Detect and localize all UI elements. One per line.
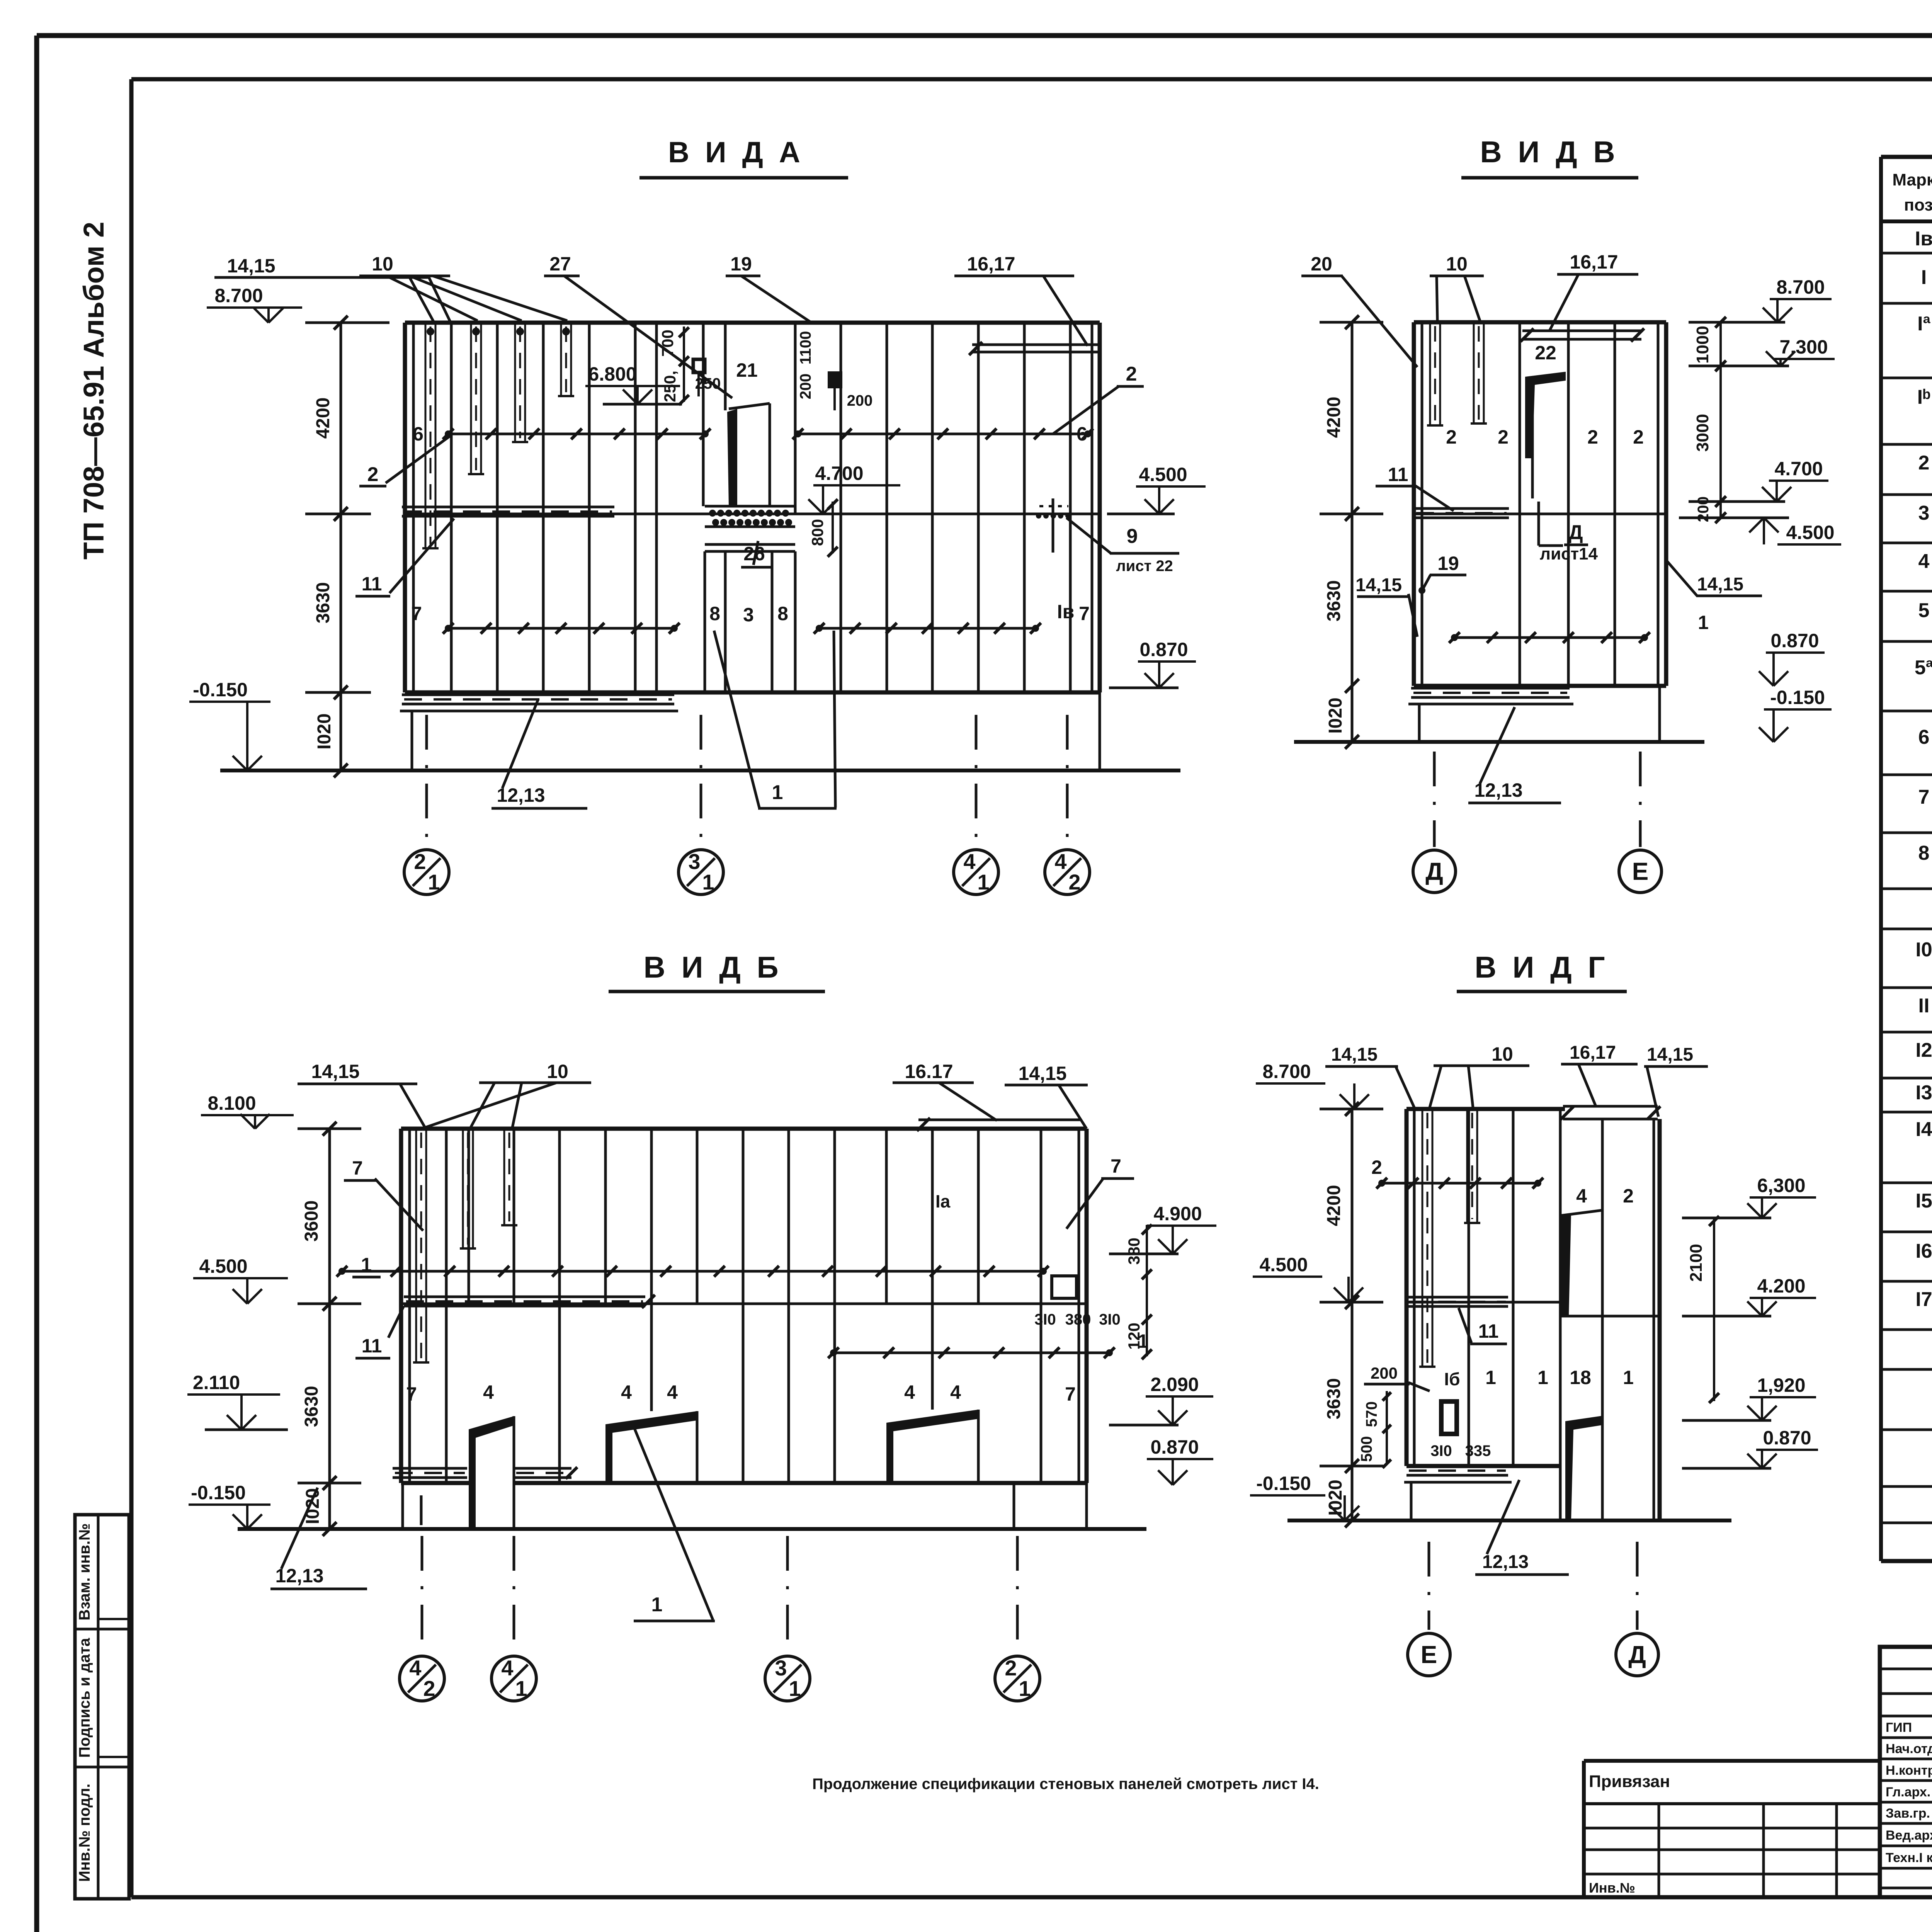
vid A cap band 16-17 bbox=[969, 342, 1100, 355]
svg-text:Привязан: Привязан bbox=[1589, 1772, 1670, 1791]
vid V strip b bbox=[1471, 322, 1487, 423]
svg-text:1100: 1100 bbox=[797, 331, 814, 365]
vid G right dims bbox=[1682, 1175, 1818, 1468]
svg-text:4: 4 bbox=[1054, 849, 1066, 874]
svg-text:I: I bbox=[1921, 266, 1927, 289]
svg-text:9: 9 bbox=[1127, 525, 1138, 548]
svg-text:3: 3 bbox=[1918, 502, 1930, 524]
svg-text:-0.150: -0.150 bbox=[1256, 1473, 1311, 1494]
vid V labels bbox=[1301, 251, 1762, 637]
vid A strip 10 d bbox=[558, 323, 574, 396]
vid A level 0.870 right bbox=[1109, 639, 1196, 688]
vid V ground line bbox=[1294, 740, 1704, 744]
vid A plinth band upper-left bbox=[402, 507, 614, 516]
vid G level 4.500 bbox=[1253, 1254, 1363, 1302]
title block bbox=[1880, 1647, 1932, 1898]
vid V cap band 16-17 bbox=[1520, 328, 1644, 342]
svg-text:Iа: Iа bbox=[935, 1191, 951, 1211]
svg-text:120: 120 bbox=[1125, 1323, 1143, 1350]
svg-text:21: 21 bbox=[736, 359, 758, 381]
svg-text:4.500: 4.500 bbox=[1139, 464, 1187, 485]
svg-text:2: 2 bbox=[1371, 1156, 1382, 1178]
svg-text:1: 1 bbox=[789, 1676, 801, 1701]
vid V right dims bbox=[1679, 276, 1841, 742]
vid B axis marks bbox=[400, 1536, 1040, 1701]
svg-text:16,17: 16,17 bbox=[1570, 1043, 1616, 1063]
svg-text:Е: Е bbox=[1632, 857, 1649, 885]
svg-text:В И Д А: В И Д А bbox=[668, 136, 804, 169]
svg-text:3: 3 bbox=[688, 849, 700, 874]
svg-text:0.870: 0.870 bbox=[1770, 630, 1819, 651]
svg-text:I3: I3 bbox=[1915, 1082, 1932, 1104]
svg-text:250: 250 bbox=[695, 375, 721, 392]
vid A anchor dots detail 26 bbox=[705, 506, 795, 551]
svg-text:1: 1 bbox=[361, 1254, 372, 1276]
vid A title bbox=[639, 136, 848, 178]
svg-text:лист 22: лист 22 bbox=[1116, 558, 1173, 575]
vid V title bbox=[1461, 135, 1638, 178]
vid B panel joints and openings bbox=[401, 1129, 1087, 1529]
svg-text:10: 10 bbox=[1492, 1043, 1513, 1065]
vid A level 4.500 right bbox=[1107, 464, 1206, 514]
vid B title bbox=[609, 950, 825, 992]
vid V mid joint line bbox=[1414, 513, 1666, 515]
svg-text:4: 4 bbox=[501, 1656, 513, 1680]
vid V left dim chain bbox=[1320, 315, 1383, 749]
vid V tick row bbox=[1449, 632, 1650, 643]
vid G level 8.700 bbox=[1256, 1061, 1369, 1109]
vid G proem rect bbox=[1441, 1401, 1457, 1434]
svg-text:7: 7 bbox=[352, 1157, 363, 1179]
svg-text:Iª: Iª bbox=[1917, 313, 1930, 335]
svg-text:I020: I020 bbox=[1325, 697, 1346, 733]
svg-text:7: 7 bbox=[1065, 1383, 1076, 1405]
vid G level -0.150 bbox=[1250, 1473, 1359, 1520]
svg-text:В И Д В: В И Д В bbox=[1480, 135, 1619, 169]
svg-text:Марка,: Марка, bbox=[1892, 170, 1932, 189]
svg-text:700: 700 bbox=[658, 330, 677, 357]
svg-text:8.700: 8.700 bbox=[214, 285, 263, 306]
svg-text:19: 19 bbox=[730, 253, 752, 275]
svg-text:14,15: 14,15 bbox=[1355, 575, 1402, 595]
vid A tick row lower bbox=[443, 623, 1041, 634]
svg-text:1: 1 bbox=[515, 1676, 527, 1701]
svg-text:12,13: 12,13 bbox=[1482, 1552, 1529, 1572]
vid A level 8.700 bbox=[207, 285, 302, 323]
svg-text:Iв: Iв bbox=[1915, 228, 1932, 250]
svg-text:Iб: Iб bbox=[1444, 1369, 1460, 1389]
svg-text:4.700: 4.700 bbox=[1774, 458, 1823, 480]
vid G cap band 16-17 bbox=[1561, 1106, 1660, 1119]
vid G below-wall edge bbox=[1410, 1482, 1413, 1520]
svg-text:8: 8 bbox=[777, 603, 788, 624]
svg-text:200: 200 bbox=[797, 374, 814, 400]
vid A level 6.800 inner bbox=[585, 363, 682, 404]
svg-text:3: 3 bbox=[743, 604, 754, 626]
svg-text:1: 1 bbox=[772, 781, 783, 804]
vid A below-wall edges bbox=[412, 692, 1100, 770]
svg-text:7: 7 bbox=[1079, 603, 1090, 624]
svg-text:6: 6 bbox=[1918, 726, 1930, 748]
svg-text:0.870: 0.870 bbox=[1763, 1427, 1811, 1449]
svg-text:200: 200 bbox=[847, 392, 873, 409]
svg-text:I7: I7 bbox=[1915, 1288, 1932, 1311]
svg-text:2: 2 bbox=[1587, 426, 1598, 448]
vid A plinth band lower bbox=[400, 695, 678, 711]
vid B strip b bbox=[460, 1129, 476, 1248]
vid G strip b bbox=[1464, 1109, 1480, 1223]
svg-text:20: 20 bbox=[1311, 253, 1332, 275]
svg-text:Зав.гр.: Зав.гр. bbox=[1886, 1806, 1930, 1821]
svg-text:3630: 3630 bbox=[1324, 580, 1344, 622]
svg-text:11: 11 bbox=[1478, 1320, 1499, 1342]
svg-text:8.700: 8.700 bbox=[1776, 276, 1825, 298]
svg-text:-0.150: -0.150 bbox=[193, 679, 248, 701]
svg-text:Н.контр.: Н.контр. bbox=[1886, 1763, 1932, 1778]
vid G left dim chain bbox=[1320, 1102, 1383, 1527]
svg-text:14,15: 14,15 bbox=[227, 255, 275, 277]
svg-text:4.900: 4.900 bbox=[1153, 1203, 1202, 1225]
vid B level 8.100 bbox=[201, 1092, 294, 1129]
svg-text:4: 4 bbox=[1918, 550, 1930, 573]
vid A tick row upper bbox=[443, 429, 1093, 439]
svg-text:22: 22 bbox=[1535, 342, 1556, 364]
vid A detail 9 dots bbox=[1036, 498, 1071, 553]
svg-text:4: 4 bbox=[409, 1656, 421, 1680]
svg-text:2: 2 bbox=[1126, 363, 1137, 385]
svg-text:2100: 2100 bbox=[1687, 1244, 1706, 1282]
svg-text:3630: 3630 bbox=[301, 1386, 322, 1427]
svg-text:4.500: 4.500 bbox=[1259, 1254, 1308, 1276]
svg-text:Гл.арх.: Гл.арх. bbox=[1886, 1785, 1930, 1799]
svg-text:4: 4 bbox=[963, 849, 975, 874]
vid A wall outline bbox=[405, 323, 1100, 692]
vid A axis marks bbox=[404, 715, 1090, 895]
svg-text:200: 200 bbox=[1371, 1364, 1398, 1382]
svg-text:I2: I2 bbox=[1915, 1039, 1932, 1061]
svg-text:2: 2 bbox=[1498, 426, 1509, 448]
svg-text:3I0: 3I0 bbox=[1034, 1311, 1056, 1328]
svg-text:4: 4 bbox=[483, 1381, 494, 1403]
svg-text:4: 4 bbox=[950, 1381, 961, 1403]
vid V window 22 bbox=[1525, 372, 1566, 498]
vid B wall outline bbox=[401, 1129, 1087, 1483]
svg-text:10: 10 bbox=[547, 1061, 568, 1082]
privyazan block bbox=[1584, 1761, 1880, 1899]
svg-text:14,15: 14,15 bbox=[1018, 1063, 1066, 1084]
svg-text:250,: 250, bbox=[661, 371, 679, 402]
vid G plinth band bottom bbox=[1404, 1466, 1512, 1482]
svg-text:16,17: 16,17 bbox=[1570, 251, 1618, 273]
vid B level 4.500 bbox=[193, 1255, 288, 1304]
vid B ground line bbox=[238, 1527, 1146, 1531]
vid B tick row lower bbox=[828, 1347, 1115, 1358]
svg-text:7: 7 bbox=[1111, 1155, 1121, 1177]
svg-text:6,300: 6,300 bbox=[1757, 1175, 1805, 1196]
svg-text:I020: I020 bbox=[303, 1488, 323, 1524]
svg-text:Iᵇ: Iᵇ bbox=[1917, 386, 1931, 408]
spec table grid bbox=[1881, 157, 1932, 1561]
svg-text:2.090: 2.090 bbox=[1150, 1374, 1199, 1395]
vid V wall outline bbox=[1414, 322, 1666, 686]
svg-text:8: 8 bbox=[709, 603, 720, 624]
svg-text:4: 4 bbox=[621, 1381, 632, 1403]
svg-text:1: 1 bbox=[1019, 1676, 1031, 1701]
vid G title bbox=[1457, 950, 1627, 992]
svg-text:10: 10 bbox=[1446, 253, 1468, 275]
svg-text:335: 335 bbox=[1465, 1442, 1491, 1459]
vid V plinth band mid bbox=[1414, 509, 1509, 518]
svg-text:I0: I0 bbox=[1915, 939, 1932, 961]
svg-text:4.500: 4.500 bbox=[1786, 522, 1834, 543]
svg-text:1000: 1000 bbox=[1693, 326, 1712, 364]
svg-text:Продолжение спецификации стено: Продолжение спецификации стеновых панеле… bbox=[812, 1776, 1319, 1793]
svg-text:-0.150: -0.150 bbox=[191, 1482, 246, 1503]
vid B plinth band bottom bbox=[393, 1467, 577, 1479]
svg-text:16,17: 16,17 bbox=[967, 253, 1015, 275]
svg-text:-0.150: -0.150 bbox=[1770, 687, 1825, 708]
svg-text:0.870: 0.870 bbox=[1139, 639, 1188, 660]
svg-text:6: 6 bbox=[413, 423, 423, 445]
svg-text:Взам. инв.№: Взам. инв.№ bbox=[76, 1523, 93, 1620]
svg-text:3630: 3630 bbox=[1324, 1378, 1344, 1420]
svg-text:В И Д Г: В И Д Г bbox=[1475, 950, 1609, 984]
svg-text:7: 7 bbox=[406, 1383, 417, 1405]
svg-text:4200: 4200 bbox=[313, 398, 333, 439]
vid A panel joints bbox=[451, 323, 1070, 692]
svg-text:4200: 4200 bbox=[1324, 1185, 1344, 1226]
svg-text:3I0: 3I0 bbox=[1430, 1442, 1452, 1459]
vid B plinth band mid bbox=[404, 1295, 655, 1308]
svg-text:ГИП: ГИП bbox=[1886, 1720, 1912, 1735]
vid A strip 10 c bbox=[512, 323, 528, 442]
svg-text:0.870: 0.870 bbox=[1150, 1436, 1199, 1458]
vid A labels and leaders bbox=[214, 253, 1179, 808]
vid B labels and leaders bbox=[270, 1061, 1148, 1621]
svg-text:380: 380 bbox=[1125, 1238, 1143, 1265]
vid B tick row upper bbox=[337, 1266, 1049, 1277]
continuation note bbox=[812, 1776, 1319, 1793]
svg-text:4.700: 4.700 bbox=[815, 463, 863, 484]
svg-text:1: 1 bbox=[702, 870, 714, 894]
spec table rows lower bbox=[1915, 939, 1932, 1551]
svg-text:I5: I5 bbox=[1915, 1190, 1932, 1212]
svg-text:800: 800 bbox=[808, 519, 827, 546]
vid B mid joint line bbox=[401, 1303, 1087, 1305]
svg-text:1: 1 bbox=[428, 870, 440, 894]
svg-text:7.300: 7.300 bbox=[1779, 336, 1828, 358]
svg-text:В И Д Б: В И Д Б bbox=[643, 950, 782, 984]
vid B right dims bbox=[1034, 1203, 1216, 1485]
svg-text:7: 7 bbox=[1918, 786, 1930, 808]
svg-text:4: 4 bbox=[1576, 1185, 1587, 1207]
svg-text:8.700: 8.700 bbox=[1262, 1061, 1311, 1082]
svg-text:14,15: 14,15 bbox=[311, 1061, 359, 1082]
vid G tick row bbox=[1376, 1178, 1543, 1189]
svg-text:1: 1 bbox=[1485, 1367, 1496, 1388]
vid G axis marks bbox=[1408, 1542, 1658, 1676]
svg-text:8: 8 bbox=[1918, 842, 1930, 864]
svg-text:11: 11 bbox=[362, 573, 382, 595]
svg-text:Д: Д bbox=[1425, 857, 1443, 885]
svg-text:570: 570 bbox=[1363, 1401, 1380, 1427]
svg-text:4: 4 bbox=[904, 1381, 915, 1403]
svg-text:6.800: 6.800 bbox=[588, 363, 636, 385]
svg-text:2: 2 bbox=[423, 1676, 435, 1701]
svg-text:3000: 3000 bbox=[1693, 414, 1712, 452]
vid G black step panel 18 bbox=[1565, 1416, 1602, 1520]
svg-text:лист14: лист14 bbox=[1540, 544, 1598, 563]
vid G strip a bbox=[1419, 1109, 1435, 1367]
svg-text:1: 1 bbox=[1698, 612, 1709, 633]
svg-text:1: 1 bbox=[651, 1594, 663, 1616]
svg-text:Инв.№ подл.: Инв.№ подл. bbox=[76, 1784, 93, 1882]
vid A window 21 opening bbox=[727, 403, 770, 507]
vid B below-plinth lines bbox=[420, 1495, 423, 1525]
svg-text:3630: 3630 bbox=[313, 582, 333, 624]
svg-text:5: 5 bbox=[1918, 599, 1930, 622]
svg-text:380: 380 bbox=[1065, 1311, 1091, 1328]
vid A strip 10 b bbox=[468, 323, 484, 474]
svg-text:10: 10 bbox=[372, 253, 393, 275]
svg-text:Iв: Iв bbox=[1057, 601, 1075, 622]
svg-text:Нач.отд.: Нач.отд. bbox=[1886, 1742, 1932, 1756]
vid V plinth band bottom bbox=[1408, 688, 1573, 704]
svg-text:3: 3 bbox=[775, 1656, 787, 1680]
vid G panel joints bbox=[1406, 1109, 1660, 1520]
svg-text:2: 2 bbox=[1005, 1656, 1017, 1680]
vid A level 4.700 inner bbox=[808, 463, 900, 514]
vid V axis marks bbox=[1413, 752, 1662, 893]
svg-text:6: 6 bbox=[1077, 423, 1087, 445]
vid A mid joint line bbox=[405, 513, 1100, 515]
vid B strip a bbox=[413, 1129, 429, 1362]
vid V label 12-13 bbox=[1468, 707, 1561, 803]
vid B proem rect bbox=[1052, 1276, 1077, 1298]
vid G ground line bbox=[1287, 1519, 1731, 1522]
spec table rows upper bbox=[1915, 228, 1932, 890]
vid B left dim chain bbox=[298, 1122, 361, 1536]
svg-text:I020: I020 bbox=[314, 713, 335, 749]
svg-text:4200: 4200 bbox=[1324, 397, 1344, 438]
svg-text:14,15: 14,15 bbox=[1647, 1044, 1693, 1065]
vid A left dim chain bbox=[305, 316, 389, 777]
vid G labels bbox=[1325, 1043, 1708, 1575]
svg-text:I4: I4 bbox=[1915, 1118, 1932, 1141]
svg-text:2: 2 bbox=[1633, 426, 1644, 448]
svg-text:1: 1 bbox=[1623, 1367, 1634, 1388]
svg-text:I6: I6 bbox=[1915, 1240, 1932, 1262]
svg-text:3600: 3600 bbox=[301, 1201, 322, 1242]
vid G wall outline bbox=[1406, 1109, 1660, 1520]
svg-text:поз.: поз. bbox=[1904, 196, 1932, 214]
svg-text:11: 11 bbox=[362, 1335, 382, 1357]
svg-text:Д: Д bbox=[1568, 521, 1583, 544]
svg-text:500: 500 bbox=[1358, 1436, 1375, 1462]
svg-text:16.17: 16.17 bbox=[905, 1061, 953, 1082]
svg-text:II: II bbox=[1918, 995, 1930, 1017]
svg-text:5ª: 5ª bbox=[1915, 656, 1932, 679]
svg-text:27: 27 bbox=[549, 253, 571, 275]
vid A small opening dims bbox=[658, 327, 872, 557]
svg-text:2.110: 2.110 bbox=[193, 1372, 240, 1393]
svg-text:4.500: 4.500 bbox=[199, 1255, 247, 1277]
svg-text:2: 2 bbox=[367, 463, 379, 486]
svg-text:3I0: 3I0 bbox=[1099, 1311, 1121, 1328]
svg-text:4.200: 4.200 bbox=[1757, 1275, 1805, 1297]
vid G black wedge panel 4 bbox=[1560, 1210, 1602, 1316]
vid G plinth band mid bbox=[1406, 1297, 1508, 1306]
svg-text:Подпись и дата: Подпись и дата bbox=[76, 1638, 93, 1758]
vid B strip c bbox=[501, 1129, 517, 1225]
vid V strip a bbox=[1427, 322, 1443, 425]
svg-text:2: 2 bbox=[1918, 452, 1930, 474]
vid B level -0.150 bbox=[189, 1482, 270, 1529]
vertical doc code TP 708-65.91 Albom 2 bbox=[78, 222, 110, 560]
svg-text:14,15: 14,15 bbox=[1697, 574, 1743, 595]
vid V panel joints bbox=[1520, 322, 1615, 686]
svg-text:14,15: 14,15 bbox=[1331, 1044, 1378, 1065]
svg-text:1,920: 1,920 bbox=[1757, 1374, 1805, 1396]
svg-text:1: 1 bbox=[1537, 1367, 1548, 1388]
svg-text:7: 7 bbox=[411, 603, 422, 624]
svg-text:Д: Д bbox=[1628, 1641, 1646, 1668]
svg-text:11: 11 bbox=[1388, 464, 1408, 485]
vid V below-wall edges bbox=[1419, 686, 1660, 742]
svg-text:Е: Е bbox=[1421, 1641, 1437, 1668]
svg-text:18: 18 bbox=[1570, 1367, 1591, 1388]
svg-text:19: 19 bbox=[1437, 553, 1459, 574]
svg-text:1: 1 bbox=[977, 870, 989, 894]
svg-text:ТП 708—65.91 Альбом 2: ТП 708—65.91 Альбом 2 bbox=[78, 222, 110, 560]
vid A ground line bbox=[220, 769, 1180, 772]
left margin stamp strip bbox=[75, 1515, 129, 1899]
svg-text:4: 4 bbox=[667, 1381, 678, 1403]
svg-text:Техн.I кат.: Техн.I кат. bbox=[1886, 1850, 1932, 1865]
svg-text:2: 2 bbox=[414, 849, 426, 874]
vid A level -0.150 bbox=[189, 679, 270, 770]
svg-text:8.100: 8.100 bbox=[207, 1092, 256, 1114]
svg-text:Инв.№: Инв.№ bbox=[1589, 1880, 1635, 1896]
vid A strip 14-15 a bbox=[422, 323, 439, 548]
svg-text:2: 2 bbox=[1446, 426, 1457, 448]
svg-text:Вед.арх.: Вед.арх. bbox=[1886, 1828, 1932, 1843]
svg-text:2: 2 bbox=[1068, 870, 1080, 894]
vid B cap band 16-17 bbox=[917, 1118, 1080, 1131]
vid B level 2.110 bbox=[187, 1372, 288, 1430]
svg-text:2: 2 bbox=[1623, 1185, 1634, 1207]
spec table header bbox=[1892, 161, 1932, 218]
